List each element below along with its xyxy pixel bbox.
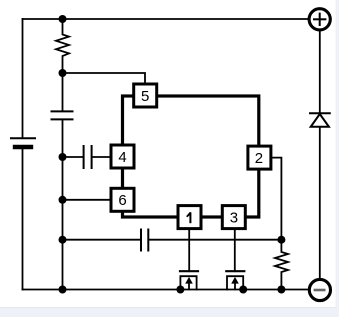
wire C2 to pin 4 bbox=[92, 156, 111, 158]
wire pin 3 gate bbox=[234, 228, 236, 272]
battery B1 short plate bbox=[15, 145, 31, 149]
svg-text:5: 5 bbox=[141, 88, 149, 105]
wire node to pin 6 bbox=[63, 199, 112, 201]
op-amp U1 body loop bbox=[123, 96, 259, 217]
svg-text:4: 4 bbox=[118, 149, 126, 166]
wire pin 2 to right node bbox=[271, 158, 281, 240]
pin 3 bbox=[222, 206, 245, 229]
wire pin 1 gate bbox=[188, 228, 190, 272]
transistor Q1 bbox=[180, 271, 198, 289]
pin 1 bbox=[178, 206, 201, 229]
capacitor C3 left plate bbox=[140, 230, 142, 251]
node R2 top bbox=[277, 236, 285, 244]
node Q1 source bbox=[176, 286, 184, 294]
capacitor C1 bottom plate bbox=[52, 118, 73, 120]
diode D1 triangle bbox=[311, 114, 329, 127]
wire + terminal to diode bbox=[319, 32, 321, 113]
node C3 tap bbox=[59, 236, 67, 244]
node pin6 tap bbox=[59, 196, 67, 204]
svg-text:3: 3 bbox=[230, 210, 238, 227]
wire left outer lower (battery to bottom rail) bbox=[22, 149, 24, 289]
wire node to C3 bbox=[63, 239, 141, 241]
pin 6 bbox=[111, 188, 134, 211]
svg-text:2: 2 bbox=[255, 150, 263, 167]
node Q2 source bbox=[239, 286, 247, 294]
wire C3 to node below pin 2 bbox=[149, 239, 281, 241]
wire rail C1 to bottom rail bbox=[62, 120, 64, 289]
node C2 tap bbox=[59, 153, 67, 161]
wire rail below R1 to C1 bbox=[62, 73, 64, 111]
node R2 bottom bbox=[277, 286, 285, 294]
terminal + positive bbox=[309, 9, 330, 30]
wire node R1-bottom to pin 5 bbox=[63, 73, 146, 84]
wire diode to - terminal bbox=[319, 128, 321, 278]
pin 5 bbox=[134, 84, 157, 107]
node top rail / R1 bbox=[59, 15, 67, 23]
diode D1 cathode bar bbox=[310, 112, 330, 114]
svg-text:6: 6 bbox=[118, 192, 126, 209]
node R1 bottom bbox=[59, 69, 67, 77]
wire top rail bbox=[23, 18, 309, 20]
pin 2 bbox=[248, 146, 271, 169]
terminal - negative bbox=[309, 279, 330, 300]
wire left outer upper (to battery) bbox=[22, 19, 24, 138]
wire bottom rail bbox=[23, 289, 309, 291]
capacitor C1 top plate bbox=[52, 110, 73, 112]
node left bottom rail bbox=[59, 286, 67, 294]
wire node to C2 bbox=[63, 156, 84, 158]
capacitor C2 right plate bbox=[91, 146, 93, 168]
resistor R1 bbox=[56, 19, 69, 73]
transistor Q2 bbox=[226, 271, 244, 289]
resistor R2 bbox=[275, 240, 288, 290]
pin 4 bbox=[111, 145, 134, 168]
capacitor C2 left plate bbox=[83, 146, 85, 168]
capacitor C3 right plate bbox=[147, 230, 149, 251]
battery B1 long plate bbox=[11, 137, 35, 139]
